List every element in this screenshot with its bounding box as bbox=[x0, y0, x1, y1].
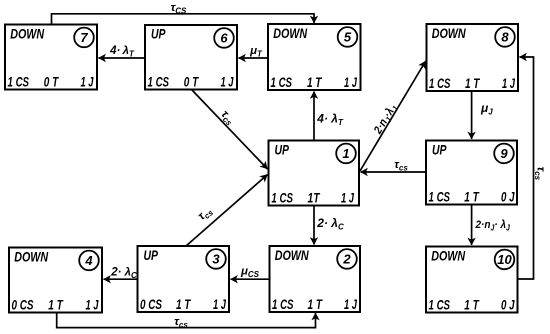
svg-text:0 T: 0 T bbox=[184, 74, 200, 90]
svg-text:1 CS: 1 CS bbox=[272, 296, 294, 312]
svg-text:τCS: τCS bbox=[171, 2, 187, 16]
svg-text:UP: UP bbox=[275, 141, 290, 157]
svg-text:DOWN: DOWN bbox=[10, 25, 45, 41]
svg-text:1 J: 1 J bbox=[213, 296, 227, 312]
svg-text:1 CS: 1 CS bbox=[8, 74, 30, 90]
svg-text:DOWN: DOWN bbox=[432, 25, 467, 41]
svg-text:1 CS: 1 CS bbox=[148, 74, 170, 90]
wire: diagonal tau_cs from state 6 to state 1 bbox=[192, 90, 268, 170]
state box 2 DOWN bbox=[270, 246, 361, 312]
state box 6 UP bbox=[145, 25, 237, 90]
wire: arrow 2·n_J·lambda_J from state 9 down to state 10 bbox=[471, 205, 473, 246]
svg-text:5: 5 bbox=[344, 30, 352, 45]
svg-text:0 J: 0 J bbox=[501, 188, 515, 204]
svg-text:0 CS: 0 CS bbox=[12, 297, 34, 313]
svg-text:1 T: 1 T bbox=[307, 74, 323, 90]
svg-text:UP: UP bbox=[432, 141, 447, 157]
wire: bottom tau_cs loop from state 4 to state 2 bbox=[57, 313, 316, 328]
svg-text:DOWN: DOWN bbox=[273, 25, 308, 41]
svg-text:0 J: 0 J bbox=[501, 297, 515, 313]
state box 7 DOWN bbox=[5, 25, 97, 90]
svg-text:10: 10 bbox=[497, 252, 512, 267]
svg-text:1 J: 1 J bbox=[502, 75, 516, 91]
svg-text:τcs: τcs bbox=[218, 108, 238, 128]
svg-text:6: 6 bbox=[220, 31, 228, 46]
svg-text:1 T: 1 T bbox=[464, 297, 480, 313]
svg-text:1 CS: 1 CS bbox=[271, 74, 293, 90]
svg-text:1 J: 1 J bbox=[341, 190, 355, 206]
svg-text:1 J: 1 J bbox=[86, 297, 100, 313]
wire: top tau_CS loop from state 7 top to state 5 top bbox=[52, 14, 315, 25]
svg-text:3: 3 bbox=[212, 252, 220, 267]
svg-text:1 T: 1 T bbox=[308, 296, 324, 312]
state box 5 DOWN bbox=[268, 24, 361, 90]
wire: arrow mu_CS from state 2 to state 3 bbox=[231, 278, 270, 280]
svg-text:2· λC: 2· λC bbox=[316, 216, 344, 232]
state box 3 UP bbox=[138, 246, 230, 312]
svg-text:μJ: μJ bbox=[480, 101, 493, 117]
svg-text:0 CS: 0 CS bbox=[140, 296, 162, 312]
svg-text:7: 7 bbox=[80, 30, 88, 45]
svg-text:2· λC: 2· λC bbox=[110, 267, 137, 281]
svg-text:1 J: 1 J bbox=[344, 74, 358, 90]
svg-text:1T: 1T bbox=[308, 190, 321, 206]
svg-text:DOWN: DOWN bbox=[431, 247, 466, 263]
svg-text:1 J: 1 J bbox=[81, 74, 95, 90]
wire: diagonal tau_cs from state 3 to state 1 bbox=[186, 175, 268, 247]
wire: arrow mu_T from state 5 to state 6 bbox=[239, 57, 269, 59]
state box 4 DOWN bbox=[9, 248, 102, 313]
state box 10 DOWN bbox=[426, 247, 518, 313]
svg-text:1 J: 1 J bbox=[221, 74, 235, 90]
wire: arrow tau_cs from state 9 to state 1 bbox=[361, 171, 427, 173]
svg-text:1 CS: 1 CS bbox=[271, 190, 293, 206]
svg-text:4· λT: 4· λT bbox=[316, 112, 344, 128]
svg-text:4: 4 bbox=[84, 253, 93, 268]
wire: diagonal 2·n_J·lambda_J from state 1 to state 8 bbox=[360, 61, 426, 171]
svg-text:1 CS: 1 CS bbox=[429, 188, 451, 204]
svg-text:τcs: τcs bbox=[533, 167, 547, 181]
svg-text:2: 2 bbox=[342, 252, 351, 267]
wire: right tau_cs loop from state 10 to state 8 bbox=[518, 57, 534, 279]
svg-text:τcs: τcs bbox=[174, 316, 188, 330]
state box 1 UP (center) bbox=[269, 141, 360, 206]
svg-text:μT: μT bbox=[249, 45, 263, 59]
svg-text:4· λT: 4· λT bbox=[109, 45, 135, 59]
svg-text:1: 1 bbox=[342, 146, 349, 161]
state box 9 UP bbox=[426, 141, 517, 205]
svg-text:9: 9 bbox=[500, 146, 508, 161]
svg-text:DOWN: DOWN bbox=[14, 248, 49, 264]
svg-text:DOWN: DOWN bbox=[275, 247, 310, 263]
svg-text:1 CS: 1 CS bbox=[429, 75, 451, 91]
wire: arrow 4·lambda_T from state 1 up to state 5 bbox=[313, 92, 315, 141]
wire: arrow 2·lambda_C from state 3 to state 4 bbox=[104, 278, 138, 280]
svg-text:1 T: 1 T bbox=[464, 188, 480, 204]
svg-text:1 T: 1 T bbox=[176, 296, 192, 312]
wire: arrow 2·lambda_C from state 1 down to state 2 bbox=[313, 206, 315, 245]
svg-text:1 T: 1 T bbox=[48, 297, 64, 313]
svg-text:1 T: 1 T bbox=[465, 75, 481, 91]
svg-text:0 T: 0 T bbox=[44, 74, 60, 90]
wire: arrow mu_J from state 8 down to state 9 bbox=[471, 91, 473, 139]
wire: arrow 4·lambda_T from state 6 to state 7 bbox=[99, 57, 146, 59]
svg-text:2·nJ·λJ: 2·nJ·λJ bbox=[371, 102, 400, 138]
svg-text:1 CS: 1 CS bbox=[429, 297, 451, 313]
svg-text:UP: UP bbox=[151, 25, 166, 41]
svg-text:1 J: 1 J bbox=[344, 296, 358, 312]
svg-text:μCS: μCS bbox=[240, 266, 260, 280]
svg-text:8: 8 bbox=[501, 30, 509, 45]
svg-text:τcs: τcs bbox=[196, 204, 216, 223]
svg-text:2·nJ· λJ: 2·nJ· λJ bbox=[475, 218, 511, 232]
svg-text:τcs: τcs bbox=[394, 159, 408, 173]
svg-text:UP: UP bbox=[144, 247, 159, 263]
state box 8 DOWN bbox=[427, 24, 519, 91]
